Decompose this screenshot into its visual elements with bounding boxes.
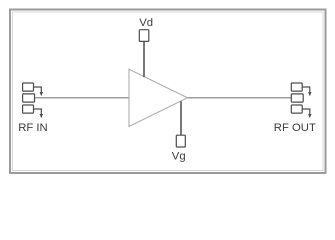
- pad RF OUT ground (top): [291, 83, 302, 91]
- pad Vg: [176, 135, 185, 147]
- arrowhead right bottom: [308, 114, 311, 118]
- wire: right top ground hook: [302, 87, 310, 93]
- wire: Vg bias feed: [180, 101, 182, 135]
- pad RF OUT ground (bottom): [291, 105, 302, 113]
- svg-text:RF OUT: RF OUT: [274, 122, 316, 134]
- arrowhead left bottom: [40, 114, 43, 118]
- svg-text:Vg: Vg: [172, 150, 186, 162]
- wire: RF output trace: [188, 97, 292, 99]
- op-amp U1 (amplifier triangle): [129, 69, 188, 126]
- svg-text:RF IN: RF IN: [18, 122, 48, 134]
- svg-text:Vd: Vd: [139, 17, 153, 29]
- arrowhead left top: [40, 92, 43, 96]
- wire: RF input trace: [35, 97, 130, 99]
- pad RF IN ground (top): [23, 83, 34, 91]
- wire: Vd bias feed: [143, 41, 145, 77]
- chip outline frame (outer): [10, 10, 326, 174]
- pad RF OUT signal (middle): [291, 94, 303, 102]
- arrowhead right top: [308, 92, 311, 96]
- wire: right bottom ground hook: [302, 109, 310, 115]
- wire: left top ground hook: [34, 87, 42, 93]
- chip outline frame (inner highlight): [13, 12, 324, 171]
- wire: left bottom ground hook: [34, 109, 42, 115]
- pad RF IN ground (bottom): [23, 105, 34, 113]
- pad RF IN signal (middle): [23, 94, 35, 102]
- pad Vd: [139, 30, 149, 42]
